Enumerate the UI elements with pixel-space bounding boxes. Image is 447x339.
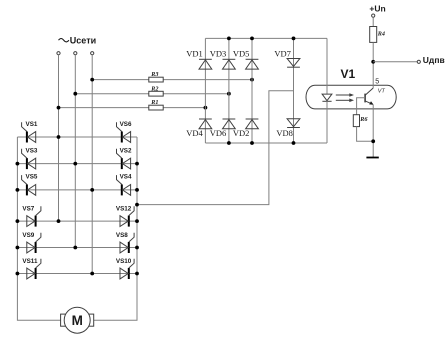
diode VD6 [223, 119, 236, 129]
svg-text:VS8: VS8 [116, 232, 128, 239]
svg-text:VS6: VS6 [120, 121, 132, 128]
wire R3 branch [92, 79, 252, 81]
diode VD8 [287, 119, 300, 128]
node phase B row 5 [73, 246, 77, 250]
thyristor VS6 [117, 122, 131, 142]
optocoupler U1 body [306, 85, 396, 109]
wire emitter vertical to ground [372, 105, 374, 158]
svg-text:Uдпв: Uдпв [423, 55, 445, 65]
net label ~Uсети [59, 35, 97, 45]
thyristor VS2 [117, 149, 131, 169]
node right bus row 2 [135, 162, 139, 166]
thyristor VS3 [22, 149, 36, 169]
node left bus row 4 [16, 219, 20, 223]
resistor R3 [149, 77, 163, 82]
node phase A row 1 [57, 135, 61, 139]
wire R1 branch [59, 107, 206, 109]
thyristor VS5 [22, 175, 36, 195]
wire LED anode drop (top rail to LED) [326, 38, 328, 94]
resistor R4 [370, 27, 377, 43]
svg-text:R6: R6 [359, 116, 368, 123]
svg-text:VS12: VS12 [116, 206, 132, 213]
terminal phase B [74, 52, 77, 55]
wire +Un to R4 [372, 17, 374, 26]
node bottom rail leg 4 [292, 141, 296, 145]
svg-text:5: 5 [375, 79, 379, 86]
node phase C row 6 [90, 272, 94, 276]
diode VD4 [199, 119, 212, 129]
node R4 / collector / Uдпв [371, 60, 375, 64]
svg-text:VD4: VD4 [186, 128, 203, 138]
svg-text:VD6: VD6 [210, 128, 227, 138]
thyristor VS9 [27, 233, 41, 253]
node phase B / R2 tap [73, 92, 77, 96]
diode VD3 [223, 59, 236, 69]
wire bridge leg 2 vertical [228, 38, 230, 143]
thyristor VS1 [22, 122, 36, 142]
svg-text:VS1: VS1 [26, 121, 38, 128]
svg-text:VD8: VD8 [276, 128, 293, 138]
thyristor VS4 [117, 175, 131, 195]
phototransistor VT [365, 88, 374, 105]
thyristor VS11 [27, 259, 41, 279]
svg-text:VS3: VS3 [26, 147, 38, 154]
node emitter / R6 [371, 139, 375, 143]
svg-text:V1: V1 [341, 67, 356, 81]
node bottom rail leg 3 [250, 141, 254, 145]
wire phase C vertical [91, 55, 93, 274]
wire thyristor row 6 [17, 273, 137, 275]
diode VD7 [287, 59, 300, 68]
wire thyristor row 3 [17, 189, 137, 191]
svg-text:VD3: VD3 [210, 49, 227, 59]
node left bus row 2 [16, 162, 20, 166]
node right bus row 3 [135, 188, 139, 192]
optical arrow 2 [336, 99, 354, 103]
wire collector vertical (pin 5 riser) [372, 62, 374, 88]
wire bridge leg 1 vertical [204, 38, 206, 143]
node left bus row 3 [16, 188, 20, 192]
resistor R1 [149, 105, 163, 110]
svg-text:R4: R4 [377, 30, 385, 37]
node R3 / bridge leg 3 [250, 78, 254, 82]
svg-text:Uсети: Uсети [70, 35, 96, 45]
node bottom rail leg 2 [227, 141, 231, 145]
thyristor VS7 [27, 206, 41, 226]
wire left bus to motor [17, 137, 60, 320]
terminal Uдпв [417, 60, 420, 63]
wire node to Uдпв terminal [373, 61, 417, 63]
wire bridge bottom rail [205, 142, 327, 144]
node R2 / bridge leg 2 [227, 92, 231, 96]
terminal +Un [372, 14, 375, 17]
diode VD2 [246, 119, 259, 129]
node left bus row 5 [16, 246, 20, 250]
diode VD1 [199, 59, 212, 69]
ground [366, 157, 378, 159]
svg-text:VD5: VD5 [233, 49, 250, 59]
wire phase A vertical [58, 55, 60, 221]
wire thyristor row 1 [17, 136, 137, 138]
svg-text:VS7: VS7 [22, 206, 34, 213]
node left bus row 6 [16, 272, 20, 276]
node right bus row 6 [135, 272, 139, 276]
node phase C / R3 tap [90, 78, 94, 82]
wire LED cathode drop (LED to bottom rail) [326, 101, 328, 143]
node phase C row 3 [90, 188, 94, 192]
node right bus control line [135, 203, 139, 207]
svg-text:R1: R1 [150, 99, 158, 106]
diode VD5 [246, 59, 259, 69]
node phase B row 2 [73, 162, 77, 166]
terminal phase A [57, 52, 60, 55]
svg-text:R2: R2 [150, 85, 158, 92]
node top rail leg 2 [227, 37, 231, 41]
terminal phase C [91, 52, 94, 55]
wire bridge leg 4 vertical [293, 38, 295, 143]
thyristor VS12 [120, 206, 134, 226]
node phase A row 4 [57, 219, 61, 223]
node R1 / bridge leg 1 [204, 106, 208, 110]
wire base lead to R6 [357, 98, 366, 115]
svg-text:VS9: VS9 [22, 232, 34, 239]
optical arrow 1 [336, 93, 354, 97]
node top rail leg 4 [292, 37, 296, 41]
svg-text:VS11: VS11 [22, 258, 38, 265]
wire right bus to motor [94, 137, 137, 320]
resistor R2 [149, 91, 163, 96]
wire R2 branch [75, 93, 229, 95]
svg-text:VS10: VS10 [116, 258, 132, 265]
wire phase B vertical [74, 55, 76, 248]
svg-text:VD7: VD7 [274, 49, 291, 59]
wire bridge top rail [205, 37, 327, 39]
wire bridge leg 3 vertical [251, 38, 253, 143]
svg-text:VD1: VD1 [186, 49, 203, 59]
thyristor VS10 [120, 259, 134, 279]
svg-text:VT: VT [378, 88, 386, 94]
node phase A / R1 tap [57, 106, 61, 110]
wire R4 to node [372, 42, 374, 61]
LED of optocoupler V1 [322, 94, 332, 101]
svg-text:VS5: VS5 [26, 174, 38, 181]
svg-text:VD2: VD2 [233, 128, 250, 138]
node right bus row 4 [135, 219, 139, 223]
node right bus row 5 [135, 246, 139, 250]
svg-text:+Un: +Un [369, 4, 385, 14]
wire control line from motor bus to VD7/VD8 node [137, 91, 294, 205]
node top rail leg 3 [250, 37, 254, 41]
wire thyristor row 4 [17, 220, 137, 222]
svg-text:VS2: VS2 [120, 147, 132, 154]
resistor R6 [353, 115, 359, 127]
svg-text:VS4: VS4 [120, 174, 132, 181]
svg-text:R3: R3 [150, 71, 158, 78]
thyristor VS8 [120, 233, 134, 253]
wire thyristor row 5 [17, 247, 137, 249]
svg-text:M: M [72, 313, 83, 328]
wire thyristor row 2 [17, 163, 137, 165]
motor M [61, 307, 94, 333]
wire R6 bottom to emitter node [357, 127, 374, 142]
